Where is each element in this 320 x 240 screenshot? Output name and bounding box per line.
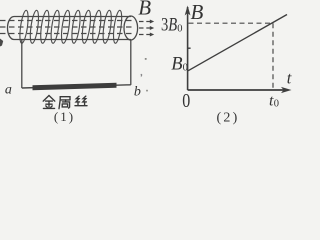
dashed vertical at t0: [272, 23, 274, 89]
scan artifact bottom-left wedge: [0, 39, 3, 47]
svg-text:a: a: [5, 82, 12, 97]
solenoid top edge: [14, 16, 131, 18]
text 金属丝 (hand-drawn glyphs): [43, 96, 87, 109]
y axis arrowhead: [185, 6, 191, 16]
svg-text:(1): (1): [54, 109, 75, 124]
wire right vertical: [130, 40, 132, 85]
glyph 丝: [75, 96, 87, 106]
svg-text:0: 0: [183, 63, 188, 74]
field line dashed top: [0, 20, 135, 22]
svg-text:0: 0: [274, 99, 279, 110]
solenoid bottom edge: [14, 39, 131, 41]
wire bottom horizontal: [22, 85, 131, 88]
svg-text:(2): (2): [217, 111, 240, 126]
field arrow top right: [139, 20, 154, 24]
coil turn 7: [81, 10, 92, 44]
coil turn 6: [70, 10, 81, 44]
axis tick at 2B0: [188, 47, 191, 49]
y axis: [187, 7, 189, 90]
coil turn 8: [91, 10, 102, 44]
coil turn 4: [50, 10, 61, 44]
dashed horizontal at 3B0: [189, 22, 273, 24]
svg-text:t: t: [287, 68, 292, 87]
coil turn 9: [102, 10, 113, 44]
wire left vertical: [21, 40, 23, 89]
field line dashed middle: [0, 26, 135, 28]
svg-text:0: 0: [177, 23, 182, 34]
coil turn 2: [29, 10, 40, 44]
coil turn 10: [112, 10, 123, 44]
x axis: [188, 89, 287, 91]
field line dashed bottom: [0, 33, 135, 35]
coil turn 3: [39, 10, 50, 44]
svg-text:B: B: [191, 0, 204, 24]
coil turn 1: [18, 10, 29, 44]
ink speck right of solenoid: [145, 58, 147, 60]
comma-like speck left of graph: [141, 74, 143, 78]
field arrow middle right: [139, 26, 154, 30]
metal wire thick segment: [33, 83, 117, 91]
field arrow bottom right: [139, 33, 154, 37]
coil turn 5: [60, 10, 71, 44]
svg-text:0: 0: [182, 90, 190, 112]
glyph 属: [59, 97, 70, 109]
svg-text:B: B: [138, 0, 151, 20]
svg-text:3B: 3B: [161, 15, 177, 36]
glyph 金: [43, 96, 55, 109]
B(t) line: [188, 15, 287, 71]
solenoid right end cap: [124, 16, 138, 40]
svg-text:b: b: [134, 85, 141, 100]
solenoid left end cap: [8, 17, 14, 40]
x axis arrowhead: [281, 87, 292, 93]
svg-text:B: B: [171, 54, 182, 74]
small ink speck after b: [146, 90, 148, 92]
